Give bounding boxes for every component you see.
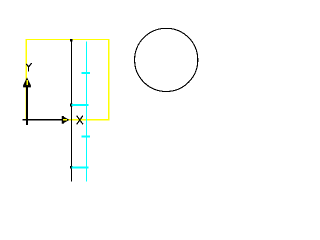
UCS icon X arrowhead (hollow with yellow slot) [63, 116, 70, 124]
wire: long black vertical line [71, 39, 73, 181]
node blip (top) [70, 39, 73, 42]
label Y [26, 63, 31, 71]
tick 2 (long, cyan) [72, 104, 89, 106]
UCS icon Y axis line [26, 86, 28, 125]
UCS icon Y arrowhead (hollow with yellow slot) [23, 77, 31, 86]
UCS icon X axis line [22, 119, 62, 121]
tick 1 (short, cyan) [82, 72, 91, 74]
wire: cyan vertical line [86, 42, 88, 182]
node blip (middle) [70, 104, 73, 107]
rectangle outline (yellow) [26, 40, 108, 120]
node blip (bottom) [70, 166, 73, 169]
tick 3 (short, cyan) [82, 136, 91, 138]
label X [77, 116, 83, 125]
tick 4 (long, cyan) [72, 167, 89, 169]
circle [135, 28, 198, 91]
